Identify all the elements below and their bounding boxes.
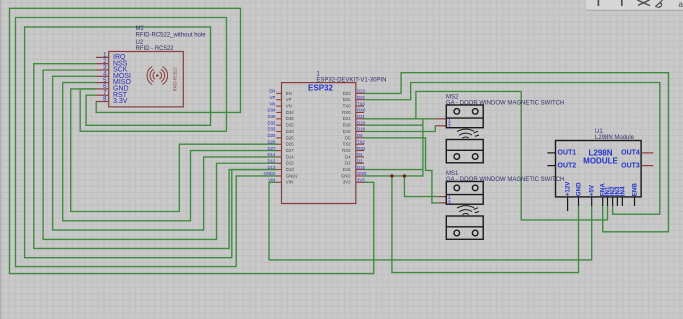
L298N module body U1 xyxy=(556,141,642,197)
switch MS2 reed block xyxy=(446,140,483,163)
svg-text:D12: D12 xyxy=(268,158,276,163)
ESP32 module body xyxy=(282,83,356,204)
svg-text:VP: VP xyxy=(270,95,276,100)
switch MS1 magnet block xyxy=(446,182,483,205)
switch MS2 magnet block xyxy=(446,105,483,128)
ESP32 inside pin names left xyxy=(286,91,299,185)
wire net GND row with junctions xyxy=(364,175,404,177)
L298N OUT4 OUT3 pins xyxy=(641,153,653,166)
svg-text:RX2: RX2 xyxy=(342,148,351,153)
svg-text:D23: D23 xyxy=(343,91,351,96)
svg-text:VN: VN xyxy=(269,101,275,106)
svg-text:D13: D13 xyxy=(268,165,276,170)
ESP32 pin stubs left xyxy=(276,93,281,182)
svg-text:D18: D18 xyxy=(357,127,365,132)
svg-text:D34: D34 xyxy=(268,108,276,113)
svg-text:RFID-RC522: RFID-RC522 xyxy=(173,67,178,92)
svg-text:3.3V: 3.3V xyxy=(113,98,128,105)
svg-text:D27: D27 xyxy=(268,146,276,151)
svg-text:D18: D18 xyxy=(343,129,351,134)
L298N bottom pin stubs xyxy=(568,197,635,211)
svg-text:M2: M2 xyxy=(136,26,145,32)
RFID pin numbers 1-8 xyxy=(103,53,107,103)
svg-text:D4: D4 xyxy=(345,154,351,159)
svg-text:OUT1: OUT1 xyxy=(558,150,577,157)
ESP32 pin stubs right xyxy=(356,93,364,182)
svg-text:D15: D15 xyxy=(343,167,351,172)
svg-text:VN: VN xyxy=(286,104,292,109)
RFID antenna icon xyxy=(147,67,168,85)
L298N OUT1 OUT2 pins xyxy=(547,153,555,166)
svg-text:OUT3: OUT3 xyxy=(621,162,640,169)
svg-text:D5: D5 xyxy=(345,135,351,140)
svg-text:D33: D33 xyxy=(286,129,294,134)
RFID pin stubs xyxy=(96,57,108,101)
svg-text:D21: D21 xyxy=(357,114,365,119)
svg-text:D2: D2 xyxy=(345,161,351,166)
L298N bottom pin names xyxy=(565,181,639,196)
wire net GND: RFID pin6 wrap over top to ESP32 GND2 xyxy=(16,18,277,267)
svg-text:D12: D12 xyxy=(286,161,294,166)
svg-text:D26: D26 xyxy=(268,139,276,144)
svg-text:D5: D5 xyxy=(357,133,363,138)
MS2 pin2 stub xyxy=(435,125,446,127)
svg-text:D35: D35 xyxy=(268,114,276,119)
svg-text:D14: D14 xyxy=(286,154,294,159)
wire net D5 to MS1 pin2 xyxy=(364,138,438,203)
svg-text:D32: D32 xyxy=(286,123,294,128)
RFID pin names xyxy=(113,54,131,105)
svg-text:OUT2: OUT2 xyxy=(558,162,577,169)
svg-text:TX0: TX0 xyxy=(357,101,365,106)
wire net MOSI: RFID pin4 to ESP32 D14 xyxy=(53,76,277,230)
switch MS2 wave arcs xyxy=(457,129,479,138)
junction dot B xyxy=(403,174,406,177)
svg-text:+12V: +12V xyxy=(565,181,572,196)
svg-text:RX0: RX0 xyxy=(342,110,351,115)
svg-text:EN: EN xyxy=(269,89,275,94)
svg-text:TX2: TX2 xyxy=(357,139,365,144)
svg-text:D22: D22 xyxy=(357,95,365,100)
wire net D21 to MS2 pin1 xyxy=(364,118,435,120)
svg-text:3V3: 3V3 xyxy=(357,178,365,183)
svg-text:ENB: ENB xyxy=(632,183,639,197)
svg-text:RX2: RX2 xyxy=(357,146,366,151)
wire net NSS: RFID pin2 to ESP32 D13 xyxy=(34,64,277,249)
wire RFID pin6 lower branch to ESP32 D26 xyxy=(71,89,277,212)
wire GND down to L298N GND xyxy=(392,176,579,273)
switch MS1 reed block xyxy=(446,216,483,239)
svg-text:D15: D15 xyxy=(357,165,365,170)
switch MS1 wave arcs xyxy=(457,206,479,215)
svg-text:D25: D25 xyxy=(268,133,276,138)
junction dot A xyxy=(390,174,393,177)
svg-text:D26: D26 xyxy=(286,142,294,147)
svg-text:GND: GND xyxy=(357,171,367,176)
svg-text:a: a xyxy=(679,0,683,9)
svg-text:RFID-RC522_without hole: RFID-RC522_without hole xyxy=(136,33,207,39)
svg-text:D32: D32 xyxy=(268,120,276,125)
wire branch D21 to L298N IN1 xyxy=(416,91,608,220)
toolbar fragment top-right xyxy=(586,0,683,10)
svg-text:3V3: 3V3 xyxy=(343,180,351,185)
svg-text:IN4: IN4 xyxy=(619,186,626,196)
svg-text:D21: D21 xyxy=(343,116,351,121)
ESP32 inside pin names right xyxy=(341,91,351,185)
svg-text:D33: D33 xyxy=(268,127,276,132)
wire net 3.3V: RFID pin8 wrap to ESP32 3V3 xyxy=(10,8,374,273)
wire net RST: RFID pin7 wrap over top to ESP32 D13 xyxy=(25,27,277,258)
svg-text:D13: D13 xyxy=(286,167,294,172)
left window edge xyxy=(0,0,1,319)
MS1 pin2 stub xyxy=(438,202,446,204)
svg-text:OUT4: OUT4 xyxy=(621,150,640,157)
svg-text:D34: D34 xyxy=(286,110,294,115)
svg-text:D4: D4 xyxy=(357,152,363,157)
ESP32 outside pin labels left xyxy=(263,89,276,183)
svg-text:GND2: GND2 xyxy=(286,173,299,178)
wire vertical MS2pin1 junction down to GND row xyxy=(404,119,423,176)
MS1 pin1 stub xyxy=(438,196,446,198)
wire net D23 to L298N ENA xyxy=(364,73,669,232)
svg-text:GND: GND xyxy=(576,182,583,196)
svg-text:D19: D19 xyxy=(357,120,365,125)
svg-text:D19: D19 xyxy=(343,123,351,128)
svg-text:VIN: VIN xyxy=(286,180,293,185)
svg-text:D23: D23 xyxy=(357,89,365,94)
wire net SCK: RFID pin3 to ESP32 D12 xyxy=(43,70,276,239)
svg-text:ESP32: ESP32 xyxy=(308,84,333,93)
svg-text:D22: D22 xyxy=(343,97,351,102)
svg-text:VIN: VIN xyxy=(268,178,275,183)
svg-text:GND2: GND2 xyxy=(263,171,276,176)
svg-text:RX0: RX0 xyxy=(357,108,366,113)
svg-text:VP: VP xyxy=(286,97,292,102)
svg-text:GND: GND xyxy=(341,173,351,178)
wire net MISO: RFID pin5 to ESP32 D27 xyxy=(63,83,277,221)
svg-text:TX2: TX2 xyxy=(343,142,351,147)
svg-text:RFID - RC522: RFID - RC522 xyxy=(136,46,175,52)
svg-text:D27: D27 xyxy=(286,148,294,153)
wire net D18 to MS2 pin2 xyxy=(364,126,435,132)
svg-text:TX0: TX0 xyxy=(343,104,351,109)
wire junction to MS1 pin1 xyxy=(404,176,438,197)
MS2 pin1 stub xyxy=(435,118,446,120)
svg-text:EN: EN xyxy=(286,91,292,96)
svg-text:D2: D2 xyxy=(357,158,363,163)
svg-text:D14: D14 xyxy=(268,152,276,157)
wire net D19 xyxy=(364,124,423,126)
svg-text:D35: D35 xyxy=(286,116,294,121)
wire net D22 to L298N IN2 xyxy=(364,83,660,215)
wire net VIN to L298N +5V xyxy=(269,182,592,260)
svg-text:D25: D25 xyxy=(286,135,294,140)
wire net D15 xyxy=(364,169,423,171)
ESP32 outside pin labels right xyxy=(357,89,367,183)
svg-text:+5V: +5V xyxy=(589,184,596,196)
svg-text:MODULE: MODULE xyxy=(583,157,618,166)
RFID module body U2 xyxy=(109,52,184,107)
